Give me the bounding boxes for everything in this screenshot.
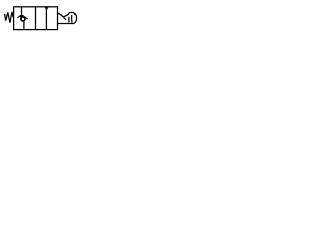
return spring [5, 12, 14, 23]
hand: finger line A [68, 17, 70, 23]
left position: bottom port stem [23, 21, 25, 29]
position divider [35, 7, 37, 30]
hand: thumb crease [64, 18, 66, 20]
right position: flow path stem [45, 10, 47, 30]
hand: curled index finger chord [71, 15, 73, 23]
valve body V1 (two-position box outline) [14, 7, 58, 30]
manual actuator: hand outline [58, 13, 77, 24]
left position: check valve seat arms [17, 15, 27, 19]
right position: flow arrowhead [45, 7, 49, 11]
left position: top port stem [21, 7, 23, 14]
left position: check valve seat cone [20, 14, 25, 17]
left position: check valve ball [21, 17, 25, 21]
